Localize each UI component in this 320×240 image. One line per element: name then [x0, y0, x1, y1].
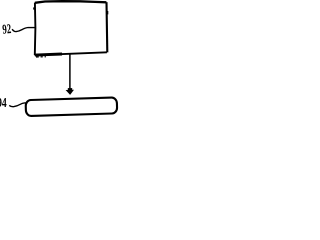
svg-text:94: 94: [0, 95, 7, 110]
box 92: thicker left part of bottom edge: [35, 54, 62, 55]
box 92: bottom edge: [35, 52, 107, 55]
scan tick on left edge: [33, 7, 35, 9]
scan bump on right edge: [107, 11, 109, 14]
leader line for 92: [12, 28, 35, 32]
box 92: right edge: [105, 2, 108, 52]
background: [0, 0, 119, 120]
arrowhead: [68, 88, 72, 90]
scan dashes below bottom edge: [36, 56, 46, 58]
svg-text:92: 92: [2, 21, 12, 37]
arrow shaft: [69, 54, 71, 89]
box 92: left edge: [34, 3, 37, 55]
stadium 94 (rounded pill): [26, 97, 118, 116]
leader line for 94: [9, 103, 27, 107]
box 92: top edge: [35, 1, 107, 3]
